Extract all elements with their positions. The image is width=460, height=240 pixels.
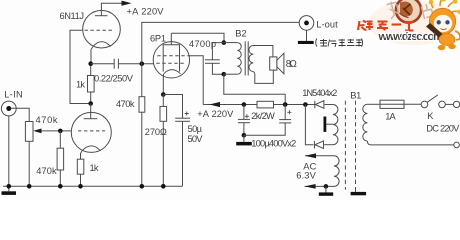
- potentiometer RP 470k: [25, 122, 33, 142]
- capacitor C1 0.22/250V: [113, 59, 115, 69]
- bus junction: pot bottom: [27, 184, 32, 189]
- svg-text:4700p: 4700p: [189, 39, 216, 49]
- wire: V2 plate lead up: [170, 33, 172, 45]
- svg-text:B1: B1: [350, 91, 361, 101]
- wire: wiper to V1b grid: [60, 130, 71, 132]
- resistor R3 1k (SRPP upper cathode): [90, 66, 92, 76]
- resistor R2 470k (grid leak): [59, 131, 61, 148]
- B1 HV center tap lead: [326, 123, 333, 125]
- svg-text:8Ω: 8Ω: [286, 59, 297, 70]
- watermark char zhao (outlined): [386, 0, 400, 19]
- V2 cathode arc: [164, 70, 181, 74]
- wire: jack sleeve to ground bus: [8, 116, 10, 186]
- arrow: +A feed (left): [209, 102, 220, 107]
- wire: secondary top to speaker: [253, 46, 273, 57]
- speaker LS 8 ohm: [270, 57, 277, 70]
- node: heater ground junction: [324, 184, 329, 189]
- svg-text:L-IN: L-IN: [4, 90, 23, 100]
- label (to next stage amp) chinese: [316, 39, 363, 48]
- wire: node A to coupling cap: [91, 63, 115, 65]
- svg-text:1A: 1A: [385, 112, 396, 122]
- arrow: heater AC (bottom): [305, 184, 316, 189]
- jack J2 L-out: [299, 16, 314, 31]
- wire: primary bottom to mains terminal: [367, 141, 453, 145]
- svg-text:6N11J: 6N11J: [60, 11, 85, 21]
- capacitor C5 100u/400V: [284, 105, 286, 120]
- wire: rail down to D2: [305, 105, 313, 145]
- ground symbol (core shield): [355, 190, 357, 192]
- diode D2 1N5404 (bottom): [313, 141, 315, 149]
- svg-text:470k: 470k: [116, 99, 135, 109]
- svg-text:470k: 470k: [36, 166, 57, 176]
- V1a cathode arc: [93, 42, 111, 47]
- watermark char pian (outlined): [421, 3, 433, 19]
- V2 screen grid (dashed): [157, 55, 187, 57]
- transformer B2 secondary winding: [249, 46, 253, 72]
- capacitor C4 100u/400V: [243, 105, 245, 120]
- capacitor C3 50u/50V (cathode bypass): [163, 95, 182, 119]
- wire: cap to 6P1 grid: [118, 63, 153, 65]
- svg-text:+A 220V: +A 220V: [127, 7, 165, 17]
- wire: V2 cathode lead: [162, 74, 164, 95]
- node: wiper / grid-leak junction: [58, 129, 63, 134]
- node: 6P1 grid / L-out / grid-leak junction: [140, 61, 145, 66]
- plus mark C4: [245, 114, 249, 118]
- svg-text:B2: B2: [235, 29, 247, 39]
- svg-text:50µ: 50µ: [188, 124, 203, 134]
- terminal: mains top: [453, 101, 459, 107]
- bus junction: R4 bottom: [78, 184, 83, 189]
- svg-text:100µ400Vx2: 100µ400Vx2: [251, 139, 296, 149]
- ground bar (HV center tap): [324, 117, 327, 132]
- node: rail / rectifier junction: [303, 102, 308, 107]
- svg-text:470k: 470k: [36, 115, 58, 125]
- wire: plate to B2 primary top: [171, 33, 224, 42]
- pot wiper arrow: [38, 130, 60, 132]
- ground bus wire: [3, 185, 183, 187]
- resistor R4 1k (lower cathode): [77, 159, 84, 174]
- transformer B1 primary winding: [363, 104, 368, 141]
- svg-text:270Ω: 270Ω: [145, 127, 167, 137]
- +A supply rail: [203, 104, 315, 106]
- watermark red circle emblem: [396, 0, 421, 23]
- svg-text:L-out: L-out: [316, 19, 338, 29]
- terminal: mains bottom: [454, 142, 460, 148]
- V2 plate (inverted U): [163, 45, 179, 72]
- wire: secondary bottom loop to speaker: [253, 70, 273, 83]
- node: B2 primary bottom junction: [222, 72, 227, 77]
- capacitor C2 4700p: [212, 43, 223, 60]
- transformer B1 core (dashed): [344, 101, 346, 190]
- resistor R7 2k/2W (filter): [257, 101, 274, 108]
- node: B2 primary top junction: [222, 40, 227, 45]
- svg-text:1k: 1k: [90, 163, 99, 173]
- transformer B2 core: [244, 41, 246, 75]
- tube V2 6P1 envelope: [153, 42, 189, 78]
- V1a grid (dashed): [85, 29, 114, 31]
- svg-text:0.22/250V: 0.22/250V: [94, 73, 134, 83]
- transformer B2 primary winding: [224, 42, 238, 44]
- bus junction: R5 bottom: [140, 184, 145, 189]
- bus junction: R6 bottom: [161, 184, 166, 189]
- tube V1a 6N11J upper triode envelope: [83, 10, 121, 48]
- ground symbol (L-out jack): [306, 30, 308, 41]
- arrow: +A supply direction (right): [122, 1, 132, 6]
- svg-text:50V: 50V: [188, 134, 204, 144]
- plus mark C3: [185, 112, 189, 116]
- wire: V1a grid to SRPP link: [70, 30, 89, 103]
- V2 control grid (dashed): [156, 62, 186, 64]
- switch K: [421, 101, 428, 108]
- wire: L-out branch: [142, 22, 299, 63]
- fuse F1 1A: [380, 100, 404, 108]
- wire: primary top to fuse: [367, 103, 380, 105]
- svg-text:2k/2W: 2k/2W: [251, 111, 275, 121]
- wire: fuse to switch: [404, 103, 421, 105]
- wire: +A plate supply top rail: [101, 3, 122, 16]
- tube V1b 6N11J lower triode envelope: [71, 112, 111, 152]
- node: rail / C4 junction: [242, 102, 247, 107]
- svg-text:1N5404x2: 1N5404x2: [302, 88, 337, 98]
- svg-text:+A 220V: +A 220V: [197, 109, 234, 119]
- wire: V2 screen to +A rail: [187, 56, 203, 105]
- V1b grid (dashed): [78, 130, 105, 132]
- V1b cathode arc: [82, 146, 101, 151]
- V1a plate bar: [95, 15, 108, 17]
- wire: heater top lead: [305, 155, 334, 157]
- svg-text:6P1: 6P1: [150, 33, 166, 43]
- node: V2 cathode junction: [161, 92, 166, 97]
- V1b plate bar: [84, 118, 98, 120]
- jack J1 L-IN: [1, 101, 16, 116]
- watermark glow background: [368, 1, 460, 45]
- bus junction: R2 bottom: [58, 184, 63, 189]
- node: C4 ground junction: [242, 133, 247, 138]
- wire: B2 primary bottom to rail: [224, 74, 285, 104]
- node: rail / B2 feed / C5 junction: [283, 102, 288, 107]
- node: SRPP junction (lower anode / upper grid): [88, 101, 93, 106]
- diode D1 1N5404 (top): [314, 101, 316, 109]
- wire: lower triode anode lead: [90, 104, 92, 119]
- ground symbol (filter caps): [243, 135, 245, 142]
- bus junction: jack ground: [7, 184, 12, 189]
- resistor R5 470k (6P1 grid leak): [141, 64, 143, 97]
- ground symbol (heater): [325, 186, 327, 192]
- node A junction (V1a cathode / 0.22 cap / 1k): [88, 61, 93, 66]
- svg-text:www.dzsc.com: www.dzsc.com: [378, 31, 444, 43]
- svg-text:6.3V: 6.3V: [296, 170, 316, 180]
- watermark text weikuyixia (red): [358, 21, 414, 31]
- transformer B1 heater winding 6.3V: [334, 156, 339, 187]
- svg-text:1k: 1k: [76, 80, 85, 90]
- wire: V1b cathode lead: [81, 151, 83, 159]
- wire: V1a cathode lead down to node A: [91, 47, 93, 64]
- svg-text:K: K: [427, 111, 434, 121]
- resistor R6 270 ohm (V2 cathode): [162, 95, 164, 107]
- transformer B1 HV secondary winding: [333, 105, 338, 145]
- plus mark C5: [287, 110, 291, 114]
- wire: heater bottom lead: [305, 185, 334, 187]
- watermark mascot: [426, 0, 460, 50]
- ground symbol (main, bottom-left): [8, 186, 10, 191]
- watermark: dzsc logo group: [358, 0, 460, 50]
- wire: jack to volume pot top: [11, 108, 30, 121]
- svg-text:DC 220V: DC 220V: [426, 123, 460, 133]
- arrow: heater AC (top): [305, 153, 316, 158]
